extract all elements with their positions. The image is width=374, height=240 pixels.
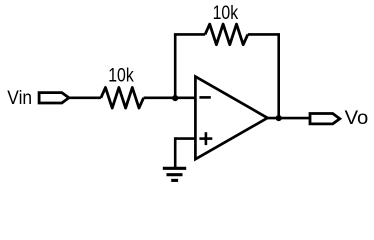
- wire op-amp output: [268, 117, 311, 120]
- port Vo: [310, 114, 340, 124]
- resistor R1 10k: [101, 88, 144, 109]
- wire to ground: [174, 137, 177, 168]
- wire Vin port to R1: [69, 97, 101, 100]
- ground: [163, 167, 186, 170]
- svg-text:Vin: Vin: [7, 88, 32, 109]
- node junction dot (output): [276, 115, 282, 121]
- wire feedback left vertical: [174, 34, 177, 98]
- svg-text:10k: 10k: [108, 65, 134, 87]
- svg-text:Vo: Vo: [345, 107, 369, 129]
- op-amp minus sign: [199, 96, 210, 99]
- wire feedback top left: [174, 33, 205, 36]
- op-amp plus sign: [199, 137, 212, 140]
- resistor R2 10k (feedback): [205, 24, 248, 45]
- op-amp U1 triangle: [195, 77, 267, 160]
- wire non-inverting input: [175, 137, 195, 140]
- wire feedback top right: [248, 33, 279, 36]
- port Vin: [39, 93, 69, 103]
- svg-text:10k: 10k: [213, 2, 239, 24]
- node junction dot (inverting input): [172, 95, 178, 101]
- wire R1 to inverting node: [144, 97, 196, 100]
- wire feedback right vertical: [277, 33, 280, 118]
